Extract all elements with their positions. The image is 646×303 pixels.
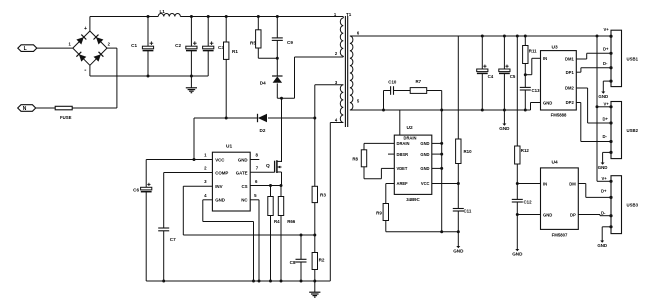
svg-text:R66: R66 [287,219,296,224]
svg-text:R1: R1 [232,49,238,54]
svg-text:IN: IN [543,181,547,186]
svg-text:COMP: COMP [215,170,228,175]
svg-text:R5: R5 [250,40,256,45]
svg-text:L1: L1 [160,9,166,14]
svg-text:FUSE: FUSE [60,115,72,120]
svg-text:D-: D- [603,61,608,66]
svg-text:GND: GND [597,243,607,248]
svg-text:C12: C12 [524,199,533,204]
svg-text:T1: T1 [346,12,352,17]
svg-text:U2: U2 [407,125,413,131]
svg-text:DRAIN: DRAIN [404,136,417,141]
svg-text:34B9C: 34B9C [406,197,419,202]
svg-text:C11: C11 [464,208,472,213]
svg-text:VCC: VCC [421,181,430,186]
svg-text:GND: GND [499,126,510,131]
svg-text:+: + [84,26,87,32]
svg-text:R11: R11 [529,48,537,53]
svg-text:Q: Q [266,163,270,169]
svg-text:GND: GND [420,141,429,146]
svg-text:U1: U1 [226,144,232,150]
svg-text:D+: D+ [601,189,607,194]
svg-text:C6: C6 [133,188,139,193]
svg-text:GND: GND [512,251,523,256]
svg-text:U3: U3 [552,44,558,50]
svg-text:DM: DM [569,181,576,186]
svg-text:FM5807: FM5807 [552,232,568,237]
svg-text:USB2: USB2 [627,128,639,133]
svg-text:GND: GND [598,94,608,99]
svg-text:R7: R7 [416,79,422,84]
svg-text:NC: NC [241,198,248,203]
svg-text:GND: GND [238,157,248,162]
svg-text:GND: GND [420,166,429,171]
svg-text:C9: C9 [287,40,293,45]
svg-text:DM1: DM1 [565,57,575,62]
svg-text:GND: GND [543,212,552,217]
svg-text:C2: C2 [175,43,181,48]
svg-text:GATE: GATE [236,170,248,175]
svg-text:DRAIN: DRAIN [397,141,410,146]
svg-text:GND: GND [215,198,225,203]
svg-text:C5: C5 [510,74,516,79]
svg-text:R8: R8 [352,157,358,162]
svg-text:DBSR: DBSR [397,152,409,157]
svg-text:D2: D2 [260,128,266,133]
svg-text:D-: D- [603,134,608,139]
svg-text:GND: GND [420,152,429,157]
svg-text:R9: R9 [376,210,382,215]
svg-text:C7: C7 [170,237,176,242]
svg-text:GND: GND [453,248,464,253]
svg-text:DM2: DM2 [565,86,575,91]
svg-text:IN: IN [543,56,547,61]
svg-text:D4: D4 [260,81,266,86]
svg-text:D-: D- [601,210,606,215]
svg-text:GND: GND [598,165,608,170]
svg-text:V+: V+ [602,176,608,181]
svg-text:U4: U4 [552,159,558,165]
svg-text:GND: GND [543,100,552,105]
svg-text:VDET: VDET [397,166,408,171]
svg-text:USB3: USB3 [627,203,639,208]
svg-text:D+: D+ [603,46,609,51]
svg-text:DP1: DP1 [566,70,575,75]
svg-text:R10: R10 [464,149,473,154]
svg-text:C1: C1 [131,43,137,48]
svg-text:C13: C13 [532,88,541,93]
svg-text:DP2: DP2 [566,100,575,105]
svg-text:V+: V+ [604,27,610,32]
svg-text:AREF: AREF [397,181,409,186]
svg-text:C10: C10 [388,79,397,84]
svg-text:INV: INV [215,184,222,189]
svg-text:L: L [24,46,27,52]
svg-text:D+: D+ [603,117,609,122]
svg-text:DP: DP [570,212,576,217]
svg-text:R4: R4 [274,219,280,224]
svg-text:C4: C4 [488,74,494,79]
svg-text:VCC: VCC [215,157,225,162]
svg-text:CS: CS [241,184,247,189]
svg-text:V+: V+ [604,102,610,107]
svg-text:FM5888: FM5888 [551,113,567,118]
svg-text:USB1: USB1 [627,56,639,61]
svg-text:R12: R12 [521,148,530,153]
svg-text:C8: C8 [290,260,296,265]
svg-text:R3: R3 [320,192,326,197]
svg-text:N: N [23,106,27,112]
svg-text:-: - [84,67,86,74]
svg-text:R2: R2 [319,257,325,262]
